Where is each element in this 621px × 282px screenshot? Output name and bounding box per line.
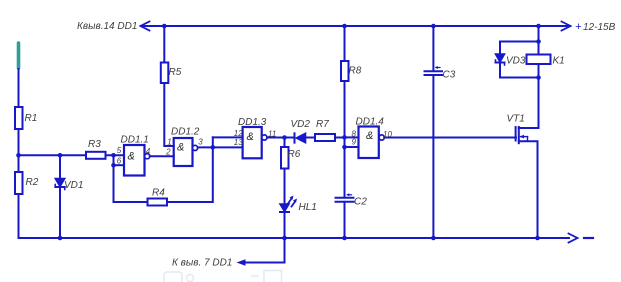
svg-text:R6: R6 xyxy=(288,149,301,160)
wire C3 column from top rail xyxy=(432,26,434,71)
svg-text:&: & xyxy=(247,131,254,143)
svg-text:R7: R7 xyxy=(316,119,329,130)
svg-text:5: 5 xyxy=(117,146,122,155)
svg-text:VD1: VD1 xyxy=(64,180,83,191)
wire VD3 branch bottom xyxy=(499,63,501,78)
node R5 top xyxy=(162,24,167,29)
svg-text:R1: R1 xyxy=(25,113,38,124)
svg-text:VD3: VD3 xyxy=(506,56,526,67)
svg-text:C2: C2 xyxy=(354,197,367,208)
node A horizontal xyxy=(19,154,87,156)
wire HL1 to bottom rail xyxy=(284,212,286,238)
svg-text:К выв. 7 DD1: К выв. 7 DD1 xyxy=(172,258,232,269)
capacitor C3 polarity mark xyxy=(435,66,440,69)
svg-text:+: + xyxy=(575,21,582,33)
wire node A to R2 xyxy=(18,155,20,172)
wire R8 to node D and C2 xyxy=(344,81,346,197)
node C3 top xyxy=(431,24,436,29)
svg-text:VT1: VT1 xyxy=(507,114,525,125)
svg-text:&: & xyxy=(366,130,373,142)
node +12-15V (right arrowhead) xyxy=(562,22,571,31)
node arrow to pin 7 DD1 xyxy=(237,259,246,265)
wire R2 to bottom rail xyxy=(18,194,20,238)
svg-text:R4: R4 xyxy=(152,188,165,199)
node B dot xyxy=(211,145,216,150)
node minus terminal (right arrowhead) xyxy=(569,234,578,243)
wire top rail xyxy=(141,25,570,27)
wire DD1.4 pin8 stub xyxy=(345,136,359,138)
svg-text:12-15В: 12-15В xyxy=(583,22,616,33)
svg-text:10: 10 xyxy=(383,130,392,139)
wire VD3 branch top xyxy=(499,42,501,55)
wire node A to VD1 xyxy=(59,155,61,178)
svg-text:R8: R8 xyxy=(349,66,362,77)
svg-text:2: 2 xyxy=(165,148,171,157)
node A dot R1 xyxy=(16,153,21,158)
wire VT1 source xyxy=(519,141,538,238)
wire VD3 bracket top xyxy=(500,41,539,43)
resistor R2 xyxy=(15,172,23,194)
op-amp DD1.4 (NAND gate) xyxy=(359,127,379,159)
svg-text:DD1.3: DD1.3 xyxy=(238,117,267,128)
wire R5 column from top rail xyxy=(163,26,165,63)
op-amp DD1.1 (NAND gate) xyxy=(124,145,145,176)
pin 3 bubble DD1.2 xyxy=(193,145,198,150)
pin 10 bubble DD1.4 xyxy=(379,135,384,140)
op-amp DD1.3 (NAND gate) xyxy=(243,127,262,158)
node C3 bottom dot xyxy=(431,236,436,241)
node C2 bottom dot xyxy=(342,236,347,241)
wire VD2 to R7 xyxy=(306,137,316,139)
svg-text:3: 3 xyxy=(198,138,203,147)
node D dot pin8 xyxy=(342,135,347,140)
wire VD1 to bottom rail xyxy=(59,187,61,238)
svg-text:Квыв.14 DD1: Квыв.14 DD1 xyxy=(77,21,137,32)
wire feedback vertical to pin6 xyxy=(113,155,115,202)
wire DD1.2 out to node B xyxy=(198,146,243,148)
LED HL1 xyxy=(280,196,297,213)
wire VD3 bracket bottom xyxy=(500,77,539,79)
op-amp DD1.2 (NAND gate) xyxy=(174,138,193,166)
svg-text:&: & xyxy=(177,142,184,154)
wire R4 to DD1.2 output node xyxy=(167,137,213,202)
svg-text:4: 4 xyxy=(146,147,151,156)
wire R8 column from top rail xyxy=(344,26,346,61)
resistor R7 xyxy=(315,134,335,141)
diode VD3 zener xyxy=(496,54,505,65)
svg-text:6: 6 xyxy=(117,157,122,166)
svg-text:K1: K1 xyxy=(553,56,565,67)
node VD3 top dot xyxy=(536,39,541,44)
wire R3 to DD1.1 pin5 xyxy=(106,154,125,156)
node A dot VD1 xyxy=(58,153,63,158)
sensor electrode E1 (touch plate) xyxy=(17,43,21,68)
relay coil K1 xyxy=(527,55,551,65)
svg-text:DD1.1: DD1.1 xyxy=(121,135,149,146)
node feedback dot pin5 xyxy=(111,153,116,158)
node C dot (R6) xyxy=(282,135,287,140)
pin 11 bubble DD1.3 xyxy=(262,135,267,140)
capacitor C3 xyxy=(425,71,443,75)
wire K1 bottom xyxy=(538,64,540,78)
svg-text:R3: R3 xyxy=(88,139,101,150)
svg-text:13: 13 xyxy=(234,138,243,147)
svg-text:DD1.4: DD1.4 xyxy=(356,117,385,128)
wire bottom rail xyxy=(19,237,569,239)
wire K1 column from top rail xyxy=(538,26,540,55)
wire C2 to bottom rail xyxy=(344,202,346,238)
wire DD1.1 out to DD1.2 pin2 xyxy=(150,155,174,157)
wire R1 to node A xyxy=(18,129,20,155)
wire R5 to DD1.2 pin1 xyxy=(164,83,173,146)
node arrow to pin 14 DD1 (left arrowhead) xyxy=(141,22,150,31)
wire tap to pin7 DD1 xyxy=(245,238,285,263)
resistor R3 xyxy=(86,152,106,159)
svg-text:C3: C3 xyxy=(443,70,456,81)
pin 4 bubble DD1.1 xyxy=(145,154,150,159)
svg-text:HL1: HL1 xyxy=(299,202,317,213)
svg-text:&: & xyxy=(128,151,135,163)
capacitor C2 polarity mark xyxy=(346,193,351,196)
VT1 body arrow xyxy=(520,135,528,142)
transistor VT1 (MOSFET) xyxy=(516,127,519,143)
wire minus dash xyxy=(584,237,593,239)
svg-text:1: 1 xyxy=(167,137,171,146)
watermark shapes (faint) xyxy=(164,271,282,282)
wire node B to DD1.3 pin12 xyxy=(213,136,243,138)
wire C3 to bottom rail xyxy=(432,75,434,238)
svg-text:R2: R2 xyxy=(26,177,39,188)
node VD3 bottom dot xyxy=(536,75,541,80)
wire node C to R6 xyxy=(284,138,286,148)
wire DD1.3 out to VD2 xyxy=(267,137,294,139)
wire R4 feedback bottom xyxy=(114,201,148,203)
resistor R8 xyxy=(341,61,349,81)
svg-text:R5: R5 xyxy=(169,67,182,78)
wire R7 to node D xyxy=(335,137,345,139)
node VD1 bottom dot xyxy=(58,236,63,241)
capacitor C2 xyxy=(336,198,354,202)
diode VD1 zener xyxy=(55,179,64,190)
svg-text:9: 9 xyxy=(352,138,357,147)
svg-text:DD1.2: DD1.2 xyxy=(171,127,200,138)
svg-text:VD2: VD2 xyxy=(291,119,311,130)
diode VD2 xyxy=(295,133,306,142)
wire R6 to HL1 xyxy=(284,169,286,205)
svg-text:11: 11 xyxy=(268,129,276,138)
wire sensor to R1 xyxy=(18,69,20,107)
resistor R1 xyxy=(15,107,23,129)
wire DD1.4 pin9 stub xyxy=(345,146,359,148)
resistor R5 xyxy=(161,63,169,84)
resistor R4 xyxy=(148,199,168,206)
node K1 top xyxy=(536,24,541,29)
resistor R6 xyxy=(281,147,289,169)
node HL1 bottom dot xyxy=(282,236,287,241)
node D dot pin9 xyxy=(342,145,347,150)
node R8 top xyxy=(342,24,347,29)
node VT1 source bottom dot xyxy=(535,236,540,241)
wire K1 to VT1 drain xyxy=(519,78,539,129)
node feedback dot pin6 xyxy=(111,163,116,168)
wire pin6 stub xyxy=(114,164,125,166)
svg-text:12: 12 xyxy=(234,129,243,138)
wire DD1.4 out to VT1 gate xyxy=(384,137,516,139)
